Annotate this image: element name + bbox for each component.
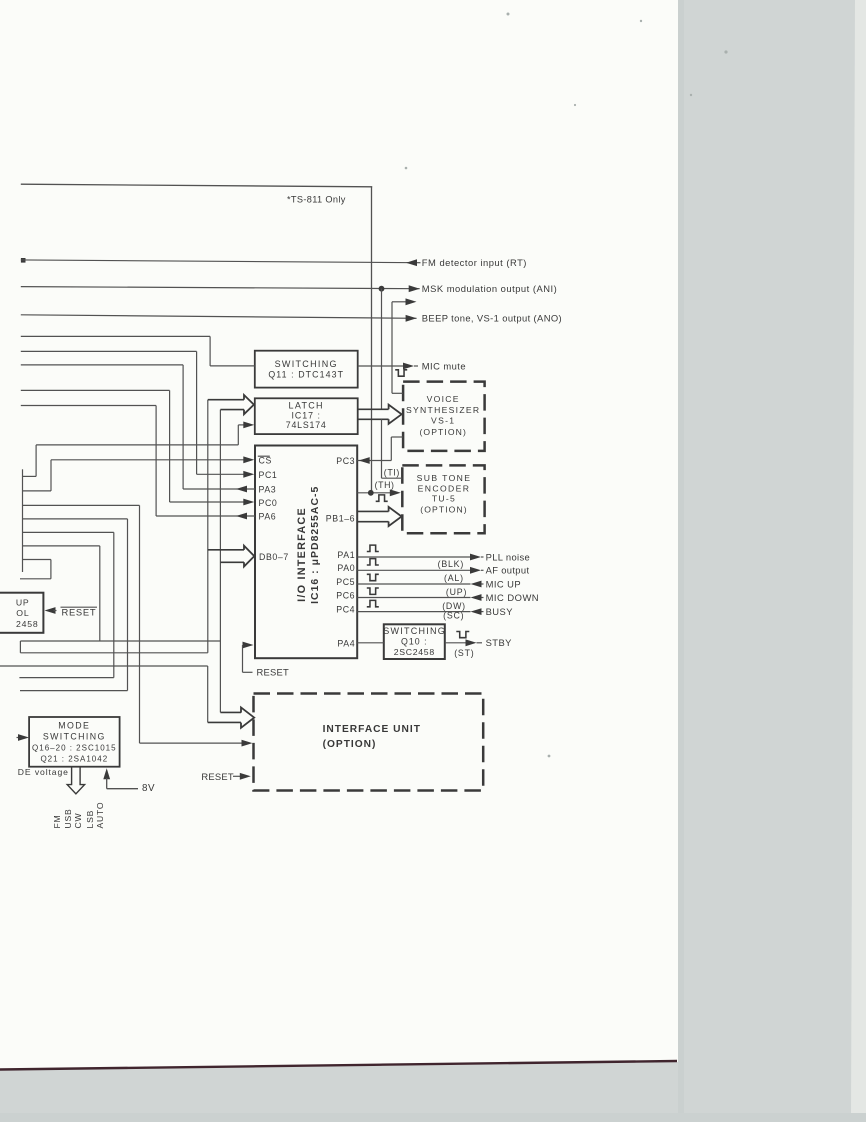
svg-text:IC16 : μPD8255AC-5: IC16 : μPD8255AC-5 bbox=[310, 486, 321, 604]
svg-text:INTERFACE UNIT: INTERFACE UNIT bbox=[323, 724, 421, 735]
svg-text:MIC mute: MIC mute bbox=[422, 360, 466, 371]
svg-text:AUTO: AUTO bbox=[95, 802, 105, 829]
svg-text:VS-1: VS-1 bbox=[431, 416, 455, 426]
svg-text:DE voltage: DE voltage bbox=[18, 767, 69, 777]
svg-text:SWITCHING: SWITCHING bbox=[383, 626, 446, 636]
svg-text:(DW): (DW) bbox=[442, 601, 466, 611]
svg-text:PA4: PA4 bbox=[337, 639, 355, 649]
svg-text:PC6: PC6 bbox=[336, 590, 355, 600]
svg-text:(BLK): (BLK) bbox=[438, 559, 465, 569]
svg-text:PC0: PC0 bbox=[259, 498, 278, 508]
svg-text:RESET: RESET bbox=[201, 771, 234, 782]
svg-text:PLL noise: PLL noise bbox=[486, 551, 530, 562]
svg-text:CS: CS bbox=[259, 456, 273, 466]
svg-text:OL: OL bbox=[16, 608, 29, 618]
svg-text:SWITCHING: SWITCHING bbox=[43, 731, 106, 741]
svg-text:RESET: RESET bbox=[62, 607, 97, 618]
svg-text:MIC DOWN: MIC DOWN bbox=[486, 592, 539, 603]
svg-text:TU-5: TU-5 bbox=[432, 494, 456, 504]
svg-text:(AL): (AL) bbox=[444, 573, 464, 583]
svg-text:SWITCHING: SWITCHING bbox=[275, 359, 338, 369]
svg-text:BEEP tone, VS-1 output (ANO): BEEP tone, VS-1 output (ANO) bbox=[422, 313, 562, 324]
svg-text:ENCODER: ENCODER bbox=[418, 483, 471, 493]
svg-text:UP: UP bbox=[16, 597, 30, 607]
svg-text:(TH): (TH) bbox=[375, 480, 395, 490]
svg-text:I/O INTERFACE: I/O INTERFACE bbox=[296, 507, 308, 602]
svg-text:(TI): (TI) bbox=[384, 467, 400, 477]
svg-text:Q11 : DTC143T: Q11 : DTC143T bbox=[268, 369, 344, 379]
svg-text:PC1: PC1 bbox=[259, 470, 278, 480]
svg-text:USB: USB bbox=[63, 808, 73, 828]
svg-text:FM detector input (RT): FM detector input (RT) bbox=[422, 257, 527, 268]
svg-text:MSK modulation output (ANI): MSK modulation output (ANI) bbox=[422, 283, 557, 294]
svg-text:BUSY: BUSY bbox=[486, 606, 514, 617]
svg-text:(OPTION): (OPTION) bbox=[420, 505, 467, 515]
svg-text:FM: FM bbox=[52, 814, 62, 828]
svg-text:PA0: PA0 bbox=[337, 563, 355, 573]
svg-text:MODE: MODE bbox=[58, 721, 90, 731]
svg-text:AF output: AF output bbox=[486, 565, 530, 576]
svg-text:MIC UP: MIC UP bbox=[486, 578, 522, 589]
svg-text:STBY: STBY bbox=[486, 637, 513, 648]
svg-text:PA3: PA3 bbox=[259, 485, 277, 495]
svg-text:Q21 : 2SA1042: Q21 : 2SA1042 bbox=[40, 754, 108, 763]
svg-text:2458: 2458 bbox=[16, 619, 39, 629]
svg-text:DB0–7: DB0–7 bbox=[259, 552, 289, 562]
svg-text:SYNTHESIZER: SYNTHESIZER bbox=[406, 405, 480, 415]
svg-text:2SC2458: 2SC2458 bbox=[394, 647, 435, 657]
svg-text:(ST): (ST) bbox=[454, 648, 474, 658]
svg-text:LATCH: LATCH bbox=[289, 401, 324, 411]
svg-text:(SC): (SC) bbox=[443, 611, 464, 621]
svg-text:Q10 :: Q10 : bbox=[401, 637, 428, 647]
svg-text:(OPTION): (OPTION) bbox=[419, 427, 466, 437]
svg-text:PC5: PC5 bbox=[336, 577, 355, 587]
svg-text:CW: CW bbox=[73, 812, 83, 828]
svg-text:PC3: PC3 bbox=[336, 456, 355, 466]
svg-text:Q16–20 : 2SC1015: Q16–20 : 2SC1015 bbox=[32, 743, 117, 752]
svg-text:PA1: PA1 bbox=[337, 550, 355, 560]
svg-text:PA6: PA6 bbox=[259, 512, 277, 522]
svg-text:LSB: LSB bbox=[85, 810, 95, 829]
svg-text:PB1–6: PB1–6 bbox=[326, 513, 355, 523]
svg-text:SUB TONE: SUB TONE bbox=[417, 473, 472, 483]
svg-text:VOICE: VOICE bbox=[427, 394, 460, 404]
svg-text:RESET: RESET bbox=[257, 667, 290, 678]
svg-text:8V: 8V bbox=[142, 783, 155, 794]
svg-text:PC4: PC4 bbox=[336, 604, 355, 614]
svg-text:*TS-811 Only: *TS-811 Only bbox=[287, 195, 346, 205]
svg-text:74LS174: 74LS174 bbox=[286, 420, 327, 430]
svg-text:(UP): (UP) bbox=[446, 587, 467, 597]
svg-text:(OPTION): (OPTION) bbox=[323, 739, 377, 750]
